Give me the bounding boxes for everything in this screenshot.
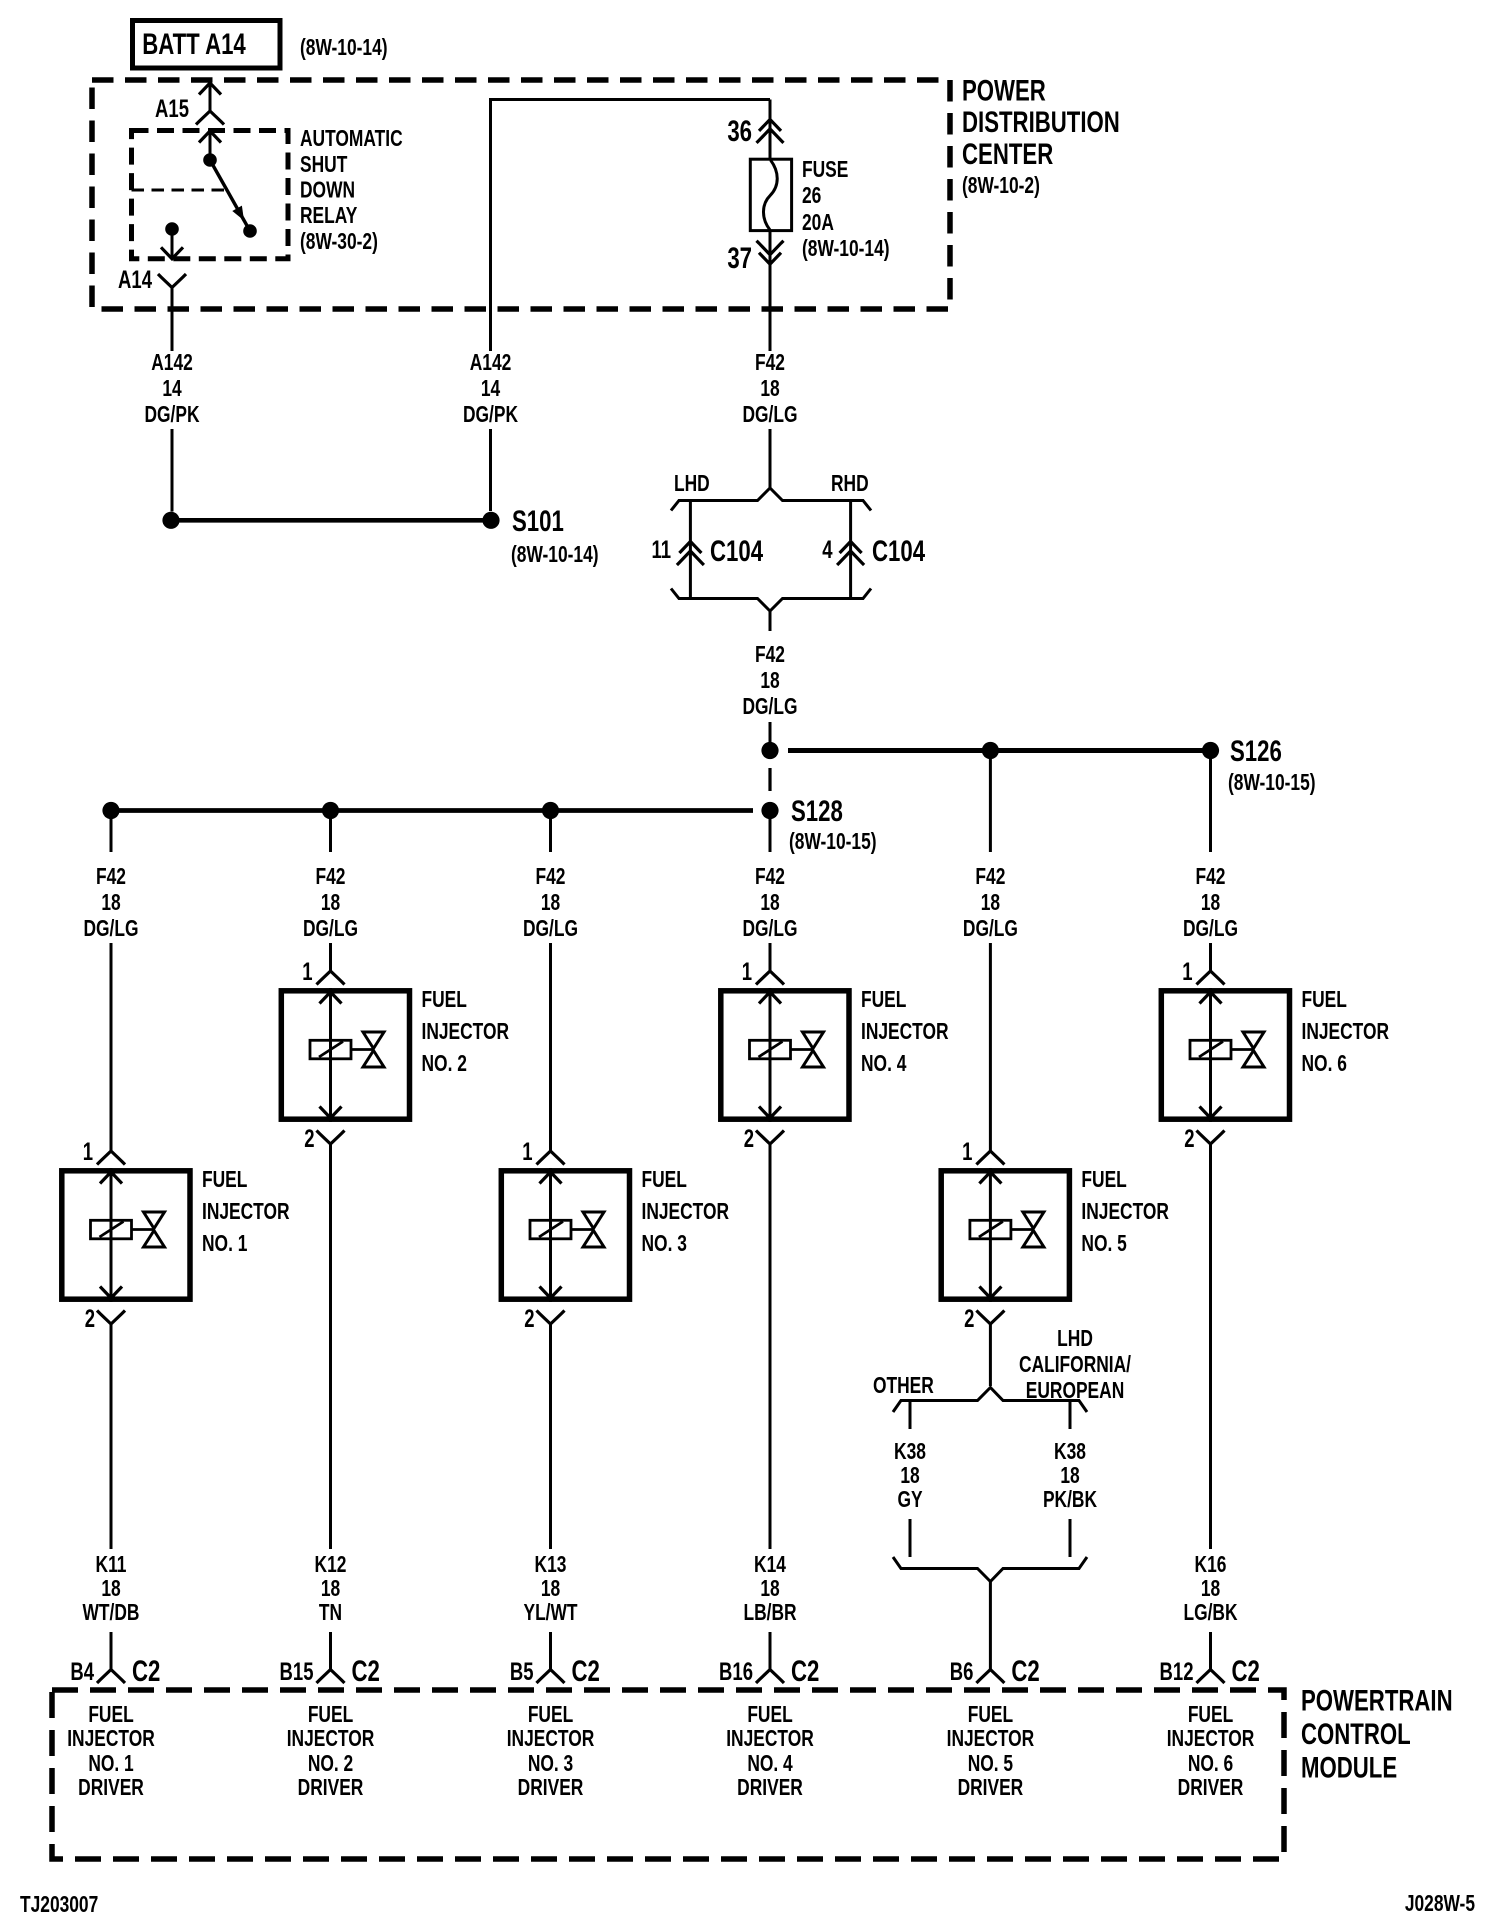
svg-text:NO. 6: NO. 6 xyxy=(1188,1751,1233,1777)
svg-text:18: 18 xyxy=(321,1576,340,1602)
wire F42 stub col 4 xyxy=(769,819,772,852)
fuel injector U4 box xyxy=(721,991,849,1119)
injector 5 internal wire xyxy=(989,1168,992,1302)
wire F42 to splice S126 xyxy=(769,722,772,743)
pin A14 connector (male arrow + female fork) xyxy=(161,247,183,258)
wire F42 to injector 2 pin 1 xyxy=(329,943,332,971)
injector 5 internal top arrow xyxy=(979,1172,1001,1184)
svg-text:S128: S128 xyxy=(791,794,843,828)
svg-text:FUEL: FUEL xyxy=(88,1702,133,1728)
fuel injector no. 6 pin 1 connector xyxy=(1197,971,1225,985)
svg-text:1: 1 xyxy=(1182,957,1192,985)
svg-text:2: 2 xyxy=(524,1304,534,1332)
svg-text:DRIVER: DRIVER xyxy=(518,1775,584,1801)
svg-text:DG/LG: DG/LG xyxy=(83,916,138,942)
svg-text:1: 1 xyxy=(962,1137,972,1165)
splice junction dot (col 1) xyxy=(102,802,119,819)
splice junction dot S126 xyxy=(1202,742,1219,759)
svg-text:DG/PK: DG/PK xyxy=(144,402,199,428)
injector 4 internal top arrow xyxy=(759,992,781,1004)
svg-text:B6: B6 xyxy=(950,1657,974,1685)
fuel injector no. 1 pin 1 connector xyxy=(97,1151,125,1165)
svg-text:INJECTOR: INJECTOR xyxy=(861,1019,949,1045)
svg-text:B16: B16 xyxy=(719,1657,753,1685)
relay coil divider dashed line xyxy=(132,189,226,192)
svg-text:NO. 3: NO. 3 xyxy=(528,1751,573,1777)
wire F42 below C104 merge xyxy=(769,611,772,631)
injector 1 internal bottom arrow xyxy=(100,1287,122,1299)
svg-text:18: 18 xyxy=(1201,890,1220,916)
svg-text:INJECTOR: INJECTOR xyxy=(67,1726,155,1752)
svg-text:INJECTOR: INJECTOR xyxy=(726,1726,814,1752)
injector 6 internal top arrow xyxy=(1200,992,1222,1004)
svg-text:18: 18 xyxy=(1060,1463,1079,1489)
svg-text:C104: C104 xyxy=(872,534,925,568)
splice junction dot S101 xyxy=(482,512,499,529)
svg-text:FUEL: FUEL xyxy=(968,1702,1013,1728)
svg-text:FUEL: FUEL xyxy=(1302,987,1347,1013)
splice junction dot (col 3) xyxy=(542,802,559,819)
fuel injector U6 box xyxy=(1161,991,1289,1119)
wire C104 RHD branch xyxy=(849,501,852,598)
svg-text:F42: F42 xyxy=(536,864,566,890)
svg-text:CALIFORNIA/: CALIFORNIA/ xyxy=(1019,1352,1131,1378)
svg-text:37: 37 xyxy=(727,241,752,275)
svg-text:DG/LG: DG/LG xyxy=(523,916,578,942)
svg-text:NO. 3: NO. 3 xyxy=(642,1231,687,1257)
svg-text:INJECTOR: INJECTOR xyxy=(202,1199,290,1225)
splice junction dot (left) xyxy=(162,512,179,529)
svg-text:K11: K11 xyxy=(96,1552,127,1578)
svg-text:NO. 5: NO. 5 xyxy=(1081,1231,1126,1257)
wire K12 upper segment xyxy=(329,1144,332,1549)
split brace (upper) xyxy=(671,488,871,511)
PCM pin B6 connector xyxy=(976,1670,1004,1684)
fuel injector U5 box xyxy=(941,1171,1069,1299)
wire F42 from fuse pin 37 xyxy=(769,231,772,351)
injector 4 internal bottom arrow xyxy=(759,1107,781,1119)
wire A15 stub xyxy=(209,83,212,111)
svg-text:POWERTRAIN: POWERTRAIN xyxy=(1301,1683,1453,1717)
svg-text:K13: K13 xyxy=(535,1552,567,1578)
wire F42 to injector 3 pin 1 xyxy=(549,943,552,1151)
injector 3 solenoid coil xyxy=(530,1220,571,1239)
svg-text:A142: A142 xyxy=(470,350,512,376)
wire A142 lower segment (left) xyxy=(171,429,174,512)
injector 3 internal wire xyxy=(549,1168,552,1302)
variant merge brace (lower) xyxy=(893,1557,1087,1582)
fuel injector no. 3 pin 1 connector xyxy=(537,1151,565,1165)
svg-text:18: 18 xyxy=(541,890,560,916)
svg-text:DRIVER: DRIVER xyxy=(78,1775,144,1801)
fuse S-curve element xyxy=(763,160,777,230)
PCM pin B15 connector xyxy=(317,1670,345,1684)
splice junction dot (col 2) xyxy=(322,802,339,819)
injector 1 internal top arrow xyxy=(100,1172,122,1184)
svg-text:36: 36 xyxy=(727,114,752,148)
variant split brace (upper) xyxy=(893,1388,1087,1413)
relay switch blade with arrowhead xyxy=(210,160,250,231)
injector 2 internal top arrow xyxy=(320,992,342,1004)
svg-text:DRIVER: DRIVER xyxy=(958,1775,1024,1801)
injector 3 valve (bowtie) symbol xyxy=(583,1212,604,1229)
injector 1 coil-to-valve link xyxy=(132,1228,155,1231)
svg-text:NO. 1: NO. 1 xyxy=(202,1231,247,1257)
fuel injector no. 5 pin 2 connector xyxy=(976,1311,1004,1325)
svg-text:FUEL: FUEL xyxy=(1188,1702,1233,1728)
svg-text:LB/BR: LB/BR xyxy=(743,1600,796,1626)
injector 6 internal bottom arrow xyxy=(1200,1107,1222,1119)
svg-text:(8W-10-14): (8W-10-14) xyxy=(511,542,599,568)
wire injector 5 pin 2 to variant split xyxy=(989,1324,992,1386)
wire K38 LHD CALIFORNIA branch lower xyxy=(1069,1519,1072,1557)
wire K16 lower segment xyxy=(1209,1632,1212,1670)
wire F42 to injector 6 pin 1 xyxy=(1209,943,1212,971)
svg-text:PK/BK: PK/BK xyxy=(1043,1487,1097,1513)
svg-text:YL/WT: YL/WT xyxy=(523,1600,577,1626)
svg-text:C2: C2 xyxy=(132,1654,160,1688)
svg-text:DRIVER: DRIVER xyxy=(298,1775,364,1801)
injector 2 coil-to-valve link xyxy=(351,1048,374,1051)
svg-text:WT/DB: WT/DB xyxy=(83,1600,140,1626)
injector 3 internal top arrow xyxy=(540,1172,562,1184)
svg-text:F42: F42 xyxy=(1196,864,1226,890)
fuel injector U2 box xyxy=(281,991,409,1119)
svg-text:OTHER: OTHER xyxy=(873,1373,934,1399)
injector 2 solenoid coil xyxy=(310,1040,351,1059)
svg-text:DG/LG: DG/LG xyxy=(742,694,797,720)
injector 2 internal bottom arrow xyxy=(320,1107,342,1119)
splice S128 bus xyxy=(111,808,753,813)
merge brace (lower) xyxy=(671,589,871,612)
fuel injector no. 2 pin 2 connector xyxy=(317,1131,345,1145)
injector 4 valve (bowtie) symbol xyxy=(803,1032,824,1049)
svg-text:4: 4 xyxy=(822,535,833,563)
wire K11 lower segment xyxy=(110,1632,113,1670)
svg-text:1: 1 xyxy=(522,1137,532,1165)
wire fuse feed (pin 36) xyxy=(769,100,772,160)
svg-text:18: 18 xyxy=(101,890,120,916)
svg-text:POWER: POWER xyxy=(962,73,1046,107)
svg-text:S101: S101 xyxy=(512,504,564,538)
PCM pin B5 connector xyxy=(537,1670,565,1684)
svg-text:NO. 2: NO. 2 xyxy=(308,1751,353,1777)
svg-text:(8W-10-14): (8W-10-14) xyxy=(300,35,388,61)
fuel injector U3 box xyxy=(501,1171,629,1299)
fuel injector no. 6 pin 2 connector xyxy=(1197,1131,1225,1145)
fuel injector U1 box xyxy=(62,1171,190,1299)
svg-text:C2: C2 xyxy=(1011,1654,1039,1688)
svg-text:K14: K14 xyxy=(754,1552,786,1578)
svg-text:18: 18 xyxy=(981,890,1000,916)
wire A142 lower segment (right) xyxy=(489,429,492,511)
svg-text:DG/LG: DG/LG xyxy=(742,916,797,942)
svg-text:18: 18 xyxy=(101,1576,120,1602)
powertrain control module dashed box xyxy=(52,1690,1284,1859)
svg-text:DOWN: DOWN xyxy=(300,177,355,203)
svg-text:BATT A14: BATT A14 xyxy=(142,27,246,61)
svg-text:SHUT: SHUT xyxy=(300,152,348,178)
svg-text:18: 18 xyxy=(760,376,779,402)
automatic shut down relay dashed box xyxy=(132,131,289,259)
wire K13 upper segment xyxy=(549,1324,552,1549)
svg-text:18: 18 xyxy=(1201,1576,1220,1602)
power distribution center dashed box xyxy=(92,80,950,309)
fuel injector no. 2 pin 1 connector xyxy=(317,971,345,985)
svg-text:FUEL: FUEL xyxy=(528,1702,573,1728)
wire K38 OTHER branch stub xyxy=(909,1401,912,1430)
svg-text:FUEL: FUEL xyxy=(861,987,906,1013)
injector 5 valve (bowtie) symbol xyxy=(1023,1212,1044,1229)
svg-text:1: 1 xyxy=(302,957,312,985)
fuel injector no. 1 pin 2 connector xyxy=(97,1311,125,1325)
svg-text:2: 2 xyxy=(964,1304,974,1332)
splice S101 bus xyxy=(171,518,491,523)
svg-text:K38: K38 xyxy=(894,1439,926,1465)
svg-text:(8W-10-15): (8W-10-15) xyxy=(789,829,877,855)
wire K38 to PCM pin B6 xyxy=(989,1582,992,1670)
svg-text:DG/PK: DG/PK xyxy=(463,402,518,428)
svg-text:INJECTOR: INJECTOR xyxy=(287,1726,375,1752)
svg-text:1: 1 xyxy=(83,1137,93,1165)
svg-text:DRIVER: DRIVER xyxy=(1178,1775,1244,1801)
wire relay output to border xyxy=(171,229,174,259)
svg-text:F42: F42 xyxy=(755,350,785,376)
svg-text:DG/LG: DG/LG xyxy=(963,916,1018,942)
svg-text:NO. 1: NO. 1 xyxy=(88,1751,133,1777)
svg-text:B4: B4 xyxy=(70,1657,94,1685)
svg-text:1: 1 xyxy=(742,957,752,985)
svg-text:F42: F42 xyxy=(755,864,785,890)
svg-text:FUEL: FUEL xyxy=(202,1167,247,1193)
svg-text:26: 26 xyxy=(802,183,821,209)
svg-text:18: 18 xyxy=(541,1576,560,1602)
svg-text:RELAY: RELAY xyxy=(300,203,357,229)
svg-text:FUEL: FUEL xyxy=(1081,1167,1126,1193)
PCM pin B16 connector xyxy=(756,1670,784,1684)
wire K11 upper segment xyxy=(110,1324,113,1549)
fuel injector no. 4 pin 2 connector xyxy=(756,1131,784,1145)
svg-text:DISTRIBUTION: DISTRIBUTION xyxy=(962,105,1120,139)
svg-text:(8W-30-2): (8W-30-2) xyxy=(300,229,378,255)
svg-text:2: 2 xyxy=(85,1304,95,1332)
svg-text:K16: K16 xyxy=(1195,1552,1227,1578)
wire F42 stub col 5 xyxy=(989,759,992,852)
svg-text:INJECTOR: INJECTOR xyxy=(1167,1726,1255,1752)
relay contact node (N.O.) xyxy=(243,224,257,238)
svg-text:C2: C2 xyxy=(791,1654,819,1688)
svg-text:C2: C2 xyxy=(572,1654,600,1688)
wire K16 upper segment xyxy=(1209,1144,1212,1549)
injector 6 coil-to-valve link xyxy=(1231,1048,1254,1051)
injector 1 valve (bowtie) symbol xyxy=(144,1212,165,1229)
injector 5 coil-to-valve link xyxy=(1011,1228,1034,1231)
svg-text:NO. 4: NO. 4 xyxy=(861,1051,907,1077)
wire K14 upper segment xyxy=(769,1144,772,1549)
wire F42 stub col 1 xyxy=(110,819,113,852)
injector 1 solenoid coil xyxy=(91,1220,132,1239)
PCM pin B4 connector xyxy=(97,1670,125,1684)
svg-text:DRIVER: DRIVER xyxy=(737,1775,803,1801)
wire F42 stub col 2 xyxy=(329,819,332,852)
svg-text:LG/BK: LG/BK xyxy=(1183,1600,1237,1626)
wire F42 to injector 1 pin 1 xyxy=(110,943,113,1151)
svg-text:TN: TN xyxy=(319,1600,342,1626)
injector 6 internal wire xyxy=(1209,988,1212,1122)
injector 6 solenoid coil xyxy=(1190,1040,1231,1059)
injector 6 valve (bowtie) symbol xyxy=(1243,1032,1264,1049)
fuel injector no. 4 pin 1 connector xyxy=(756,971,784,985)
svg-text:NO. 2: NO. 2 xyxy=(422,1051,467,1077)
splice junction dot (S126 rail, col 4 feed) xyxy=(761,742,778,759)
svg-text:FUEL: FUEL xyxy=(308,1702,353,1728)
svg-text:K38: K38 xyxy=(1054,1439,1086,1465)
injector 4 coil-to-valve link xyxy=(791,1048,814,1051)
injector 1 internal wire xyxy=(110,1168,113,1302)
svg-text:2: 2 xyxy=(304,1124,314,1152)
svg-text:NO. 4: NO. 4 xyxy=(747,1751,793,1777)
injector 5 solenoid coil xyxy=(970,1220,1011,1239)
fuel injector no. 3 pin 2 connector xyxy=(537,1311,565,1325)
svg-text:INJECTOR: INJECTOR xyxy=(507,1726,595,1752)
splice junction dot (col 5) xyxy=(982,742,999,759)
wire F42 stub col 6 xyxy=(1209,759,1212,852)
svg-text:F42: F42 xyxy=(316,864,346,890)
svg-text:FUEL: FUEL xyxy=(422,987,467,1013)
svg-text:18: 18 xyxy=(900,1463,919,1489)
svg-text:B5: B5 xyxy=(510,1657,534,1685)
injector 2 internal wire xyxy=(329,988,332,1122)
splice S126 bus xyxy=(788,748,1211,753)
svg-text:INJECTOR: INJECTOR xyxy=(642,1199,730,1225)
svg-text:11: 11 xyxy=(651,535,671,563)
wire F42 stub col 3 xyxy=(549,819,552,852)
svg-text:C2: C2 xyxy=(1232,1654,1260,1688)
svg-text:MODULE: MODULE xyxy=(1301,1750,1397,1784)
wire relay pin 30 stub xyxy=(209,131,212,160)
relay output node A14 xyxy=(165,222,179,236)
svg-text:RHD: RHD xyxy=(831,471,869,497)
svg-text:F42: F42 xyxy=(975,864,1005,890)
wire K14 lower segment xyxy=(769,1632,772,1670)
svg-text:INJECTOR: INJECTOR xyxy=(947,1726,1035,1752)
wire F42 to injector 4 pin 1 xyxy=(769,943,772,971)
svg-text:CONTROL: CONTROL xyxy=(1301,1717,1411,1751)
svg-text:AUTOMATIC: AUTOMATIC xyxy=(300,126,403,152)
relay contact node (common) xyxy=(203,153,217,167)
wire K38 OTHER branch lower xyxy=(909,1519,912,1557)
svg-text:J028W-5: J028W-5 xyxy=(1405,1891,1475,1917)
svg-text:18: 18 xyxy=(760,1576,779,1602)
svg-text:A15: A15 xyxy=(155,94,189,122)
svg-text:LHD: LHD xyxy=(674,471,710,497)
svg-text:NO. 5: NO. 5 xyxy=(968,1751,1013,1777)
svg-text:LHD: LHD xyxy=(1057,1326,1093,1352)
fuel injector no. 5 pin 1 connector xyxy=(976,1151,1004,1165)
connector C104 pin 4 chevrons xyxy=(840,542,862,554)
relay contact terminal (top, from A15) xyxy=(199,131,221,143)
wire link S126 to S128 xyxy=(768,768,771,791)
svg-text:S126: S126 xyxy=(1230,734,1282,768)
svg-text:NO. 6: NO. 6 xyxy=(1302,1051,1347,1077)
splice junction dot S128 xyxy=(761,802,778,819)
injector 3 internal bottom arrow xyxy=(540,1287,562,1299)
svg-text:20A: 20A xyxy=(802,210,834,236)
svg-text:2: 2 xyxy=(744,1124,754,1152)
svg-text:TJ203007: TJ203007 xyxy=(20,1892,98,1918)
wire A142 upper segment (left) xyxy=(171,288,174,352)
svg-text:INJECTOR: INJECTOR xyxy=(1302,1019,1390,1045)
svg-text:18: 18 xyxy=(760,890,779,916)
svg-text:A14: A14 xyxy=(118,265,153,293)
svg-text:2: 2 xyxy=(1184,1124,1194,1152)
svg-text:FUEL: FUEL xyxy=(642,1167,687,1193)
wire K12 lower segment xyxy=(329,1632,332,1670)
pin 37 in-line connector chevrons xyxy=(759,253,781,265)
svg-text:C2: C2 xyxy=(352,1654,380,1688)
svg-text:GY: GY xyxy=(897,1487,922,1513)
fuse 26 element box xyxy=(750,159,791,230)
connector C104 pin 11 chevrons xyxy=(679,542,701,554)
svg-text:A142: A142 xyxy=(151,350,193,376)
wire K13 lower segment xyxy=(549,1632,552,1670)
wire F42 to LHD/RHD split xyxy=(769,429,772,488)
svg-text:DG/LG: DG/LG xyxy=(303,916,358,942)
svg-text:(8W-10-2): (8W-10-2) xyxy=(962,173,1040,199)
wire F42 to injector 5 pin 1 xyxy=(989,943,992,1151)
svg-text:18: 18 xyxy=(760,668,779,694)
svg-text:18: 18 xyxy=(321,890,340,916)
injector 5 internal bottom arrow xyxy=(979,1287,1001,1299)
svg-text:FUSE: FUSE xyxy=(802,157,848,183)
svg-text:F42: F42 xyxy=(96,864,126,890)
svg-text:14: 14 xyxy=(162,376,182,402)
svg-text:K12: K12 xyxy=(315,1552,347,1578)
wire bus inside PDC (horizontal feed) xyxy=(491,100,771,352)
PCM pin B12 connector xyxy=(1197,1670,1225,1684)
wire C104 LHD branch xyxy=(689,501,692,598)
svg-text:INJECTOR: INJECTOR xyxy=(422,1019,510,1045)
injector 2 valve (bowtie) symbol xyxy=(363,1032,384,1049)
svg-text:INJECTOR: INJECTOR xyxy=(1081,1199,1169,1225)
svg-text:(8W-10-15): (8W-10-15) xyxy=(1228,770,1316,796)
svg-text:CENTER: CENTER xyxy=(962,137,1053,171)
svg-text:B15: B15 xyxy=(280,1657,314,1685)
injector 4 internal wire xyxy=(769,988,772,1122)
wire K38 LHD CALIFORNIA branch stub xyxy=(1069,1401,1072,1430)
svg-text:DG/LG: DG/LG xyxy=(742,402,797,428)
svg-text:FUEL: FUEL xyxy=(747,1702,792,1728)
svg-text:B12: B12 xyxy=(1160,1657,1194,1685)
pin 36 in-line connector chevrons xyxy=(759,119,781,130)
injector 4 solenoid coil xyxy=(750,1040,791,1059)
svg-text:(8W-10-14): (8W-10-14) xyxy=(802,236,890,262)
svg-text:C104: C104 xyxy=(710,534,763,568)
battery feed box BATT A14 xyxy=(133,21,281,69)
svg-text:F42: F42 xyxy=(755,642,785,668)
injector 3 coil-to-valve link xyxy=(571,1228,594,1231)
svg-text:DG/LG: DG/LG xyxy=(1183,916,1238,942)
svg-text:14: 14 xyxy=(481,376,501,402)
